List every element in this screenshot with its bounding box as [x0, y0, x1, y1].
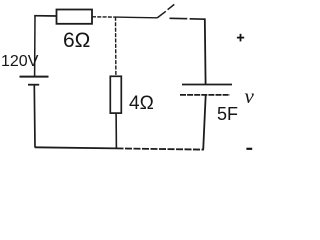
capacitor 5F bottom plate [180, 94, 230, 96]
resistor 6ohm body [57, 10, 93, 24]
switch blade tip [168, 4, 175, 9]
wire top left horizontal [34, 15, 57, 17]
capacitor 5F top plate [182, 84, 232, 86]
label 5F [217, 104, 238, 125]
label 120V [1, 53, 38, 71]
node middle junction / wire middle branch top [115, 17, 117, 77]
wire left vertical (source top lead) [34, 16, 36, 77]
wire junction to switch [116, 16, 158, 19]
label v [245, 84, 254, 109]
switch blade [157, 11, 166, 18]
wire battery bottom lead [33, 85, 36, 148]
switch contact wire right part [190, 18, 205, 20]
wire middle branch bottom [115, 113, 117, 149]
switch fixed contact wire [170, 17, 188, 19]
battery long plate [20, 76, 49, 78]
label 4 ohm [129, 93, 154, 115]
wire resistor to switch [92, 16, 116, 18]
wire bottom return right (dashed scan) [117, 148, 204, 149]
wire bottom return [35, 147, 117, 148]
wire right vertical bottom [203, 95, 206, 150]
wire right vertical top [204, 18, 207, 85]
label 6 ohm [63, 29, 90, 53]
plus sign [237, 37, 244, 39]
resistor 4ohm body [110, 76, 121, 113]
battery short plate [28, 84, 39, 86]
minus sign [246, 148, 252, 150]
